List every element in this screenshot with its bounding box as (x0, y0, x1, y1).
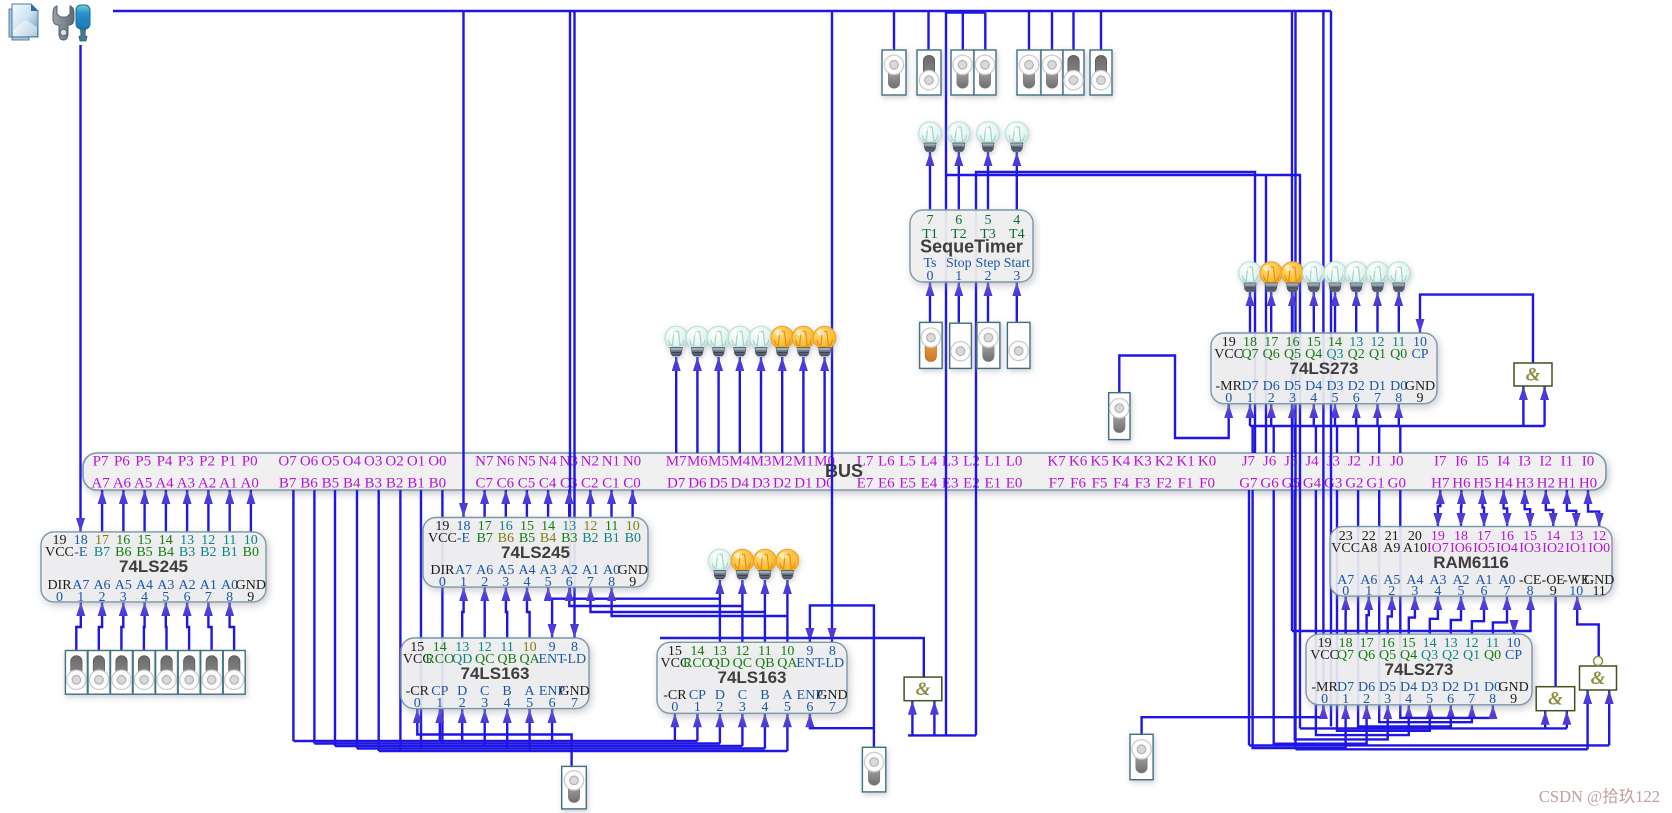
svg-text:N6: N6 (496, 454, 515, 470)
wire bus G6 to U6 D6 (1274, 490, 1371, 744)
wire trunk T2 drop (1265, 175, 1267, 453)
svg-text:BUS: BUS (825, 461, 863, 481)
svg-text:6: 6 (1447, 692, 1454, 707)
wire bus G1 to U6 D1 (1379, 490, 1476, 722)
svg-text:F1: F1 (1178, 476, 1194, 492)
wire U2 B0 to bus C0 (628, 490, 637, 517)
wire U3 QB to U2 (501, 587, 510, 638)
svg-text:J6: J6 (1263, 454, 1277, 470)
svg-text:I2: I2 (1540, 454, 1553, 470)
svg-text:L3: L3 (942, 454, 959, 470)
wire U4 QB to lamp (760, 580, 769, 642)
svg-text:O7: O7 (278, 454, 297, 470)
svg-text:E0: E0 (1006, 476, 1023, 492)
svg-text:VCC: VCC (1310, 648, 1339, 663)
svg-text:RCO: RCO (683, 656, 712, 671)
svg-text:6: 6 (806, 700, 813, 715)
wire U4 -CR riser (670, 713, 679, 741)
lamp U4 QC (731, 549, 754, 579)
svg-text:1: 1 (460, 575, 467, 590)
chip U7 RAM6116 (1330, 527, 1614, 599)
svg-text:2: 2 (1363, 692, 1370, 707)
svg-text:G2: G2 (1345, 476, 1363, 492)
svg-text:7: 7 (205, 590, 212, 605)
svg-text:M4: M4 (729, 454, 750, 470)
wire U5 D0 col (1394, 404, 1403, 426)
lamp U5 Q1 (1366, 262, 1389, 292)
lamp U5 Q6 (1260, 262, 1283, 292)
lamp U5 Q5 (1281, 262, 1304, 292)
svg-text:-E: -E (74, 545, 87, 560)
wire U2 B7 to bus C7 (480, 490, 489, 517)
wire U5 D3 col (1331, 404, 1340, 426)
wire switch S4 to U5 -MR (1119, 356, 1233, 439)
switch K0 (1090, 50, 1112, 95)
svg-text:D3: D3 (752, 476, 770, 492)
wire U2 B5 to bus C5 (522, 490, 531, 517)
svg-text:N2: N2 (581, 454, 599, 470)
svg-text:E2: E2 (963, 476, 980, 492)
svg-text:RCO: RCO (425, 652, 454, 667)
wire U4 B riser (760, 713, 769, 748)
svg-text:F3: F3 (1135, 476, 1151, 492)
wire U1 B1 to bus A1 (225, 490, 234, 532)
svg-text:I0: I0 (1582, 454, 1595, 470)
svg-text:B6: B6 (300, 476, 318, 492)
wire trunk x1249 (1248, 490, 1250, 745)
svg-text:5: 5 (784, 700, 791, 715)
svg-text:I7: I7 (1434, 454, 1447, 470)
lamp M1 (792, 326, 815, 356)
wire bus M5 to lamp (714, 357, 723, 453)
svg-text:C7: C7 (476, 476, 494, 492)
svg-text:F4: F4 (1113, 476, 1129, 492)
svg-text:C0: C0 (623, 476, 641, 492)
svg-text:P7: P7 (93, 454, 109, 470)
wire trunk x946 (945, 11, 947, 735)
wire bus M1 to lamp (799, 357, 808, 453)
svg-text:5: 5 (526, 696, 533, 711)
wire fan L4 (357, 747, 765, 749)
wire U4 D riser (715, 713, 724, 743)
wire U5 D6 col (1267, 404, 1276, 426)
svg-text:A4: A4 (155, 476, 174, 492)
wire U5 D2 col (1352, 404, 1361, 426)
wire bus H2 to RAM IO2 (1541, 490, 1557, 527)
svg-text:J1: J1 (1369, 454, 1382, 470)
wire timer button 0 (926, 282, 935, 322)
svg-text:3: 3 (502, 575, 509, 590)
lamp U5 Q2 (1345, 262, 1368, 292)
wire h728 to G2 (1300, 727, 1567, 729)
svg-text:1: 1 (694, 700, 701, 715)
svg-text:H4: H4 (1494, 476, 1513, 492)
wire U1 B3 to bus A3 (183, 490, 192, 532)
svg-text:P1: P1 (220, 454, 236, 470)
svg-text:N5: N5 (517, 454, 535, 470)
wire switch A0 to U1 (225, 602, 234, 650)
wire bus G3 to U6 D3 (1337, 490, 1434, 731)
wire U5 D1 col (1373, 404, 1382, 426)
svg-text:Q6: Q6 (1358, 648, 1375, 663)
wire h426 (1250, 425, 1545, 427)
wire -LD U4 feed (828, 11, 837, 642)
svg-text:D6: D6 (688, 476, 707, 492)
svg-text:0: 0 (1321, 692, 1328, 707)
wire U5 D5 col (1288, 404, 1297, 426)
svg-text:E3: E3 (942, 476, 959, 492)
wire bus G2 to U6 D2 (1358, 490, 1455, 727)
lamp U5 Q0 (1388, 262, 1411, 292)
wire U1 B7 to bus A7 (98, 490, 107, 532)
wire G4 input line (908, 734, 976, 736)
wire U6 Q1 to RAM A1 (1472, 596, 1489, 634)
svg-text:O0: O0 (428, 454, 446, 470)
svg-text:6: 6 (566, 575, 573, 590)
wire CP CE line (1292, 596, 1535, 631)
svg-text:G6: G6 (1260, 476, 1279, 492)
wire U6 Q7 to RAM A7 (1341, 596, 1350, 634)
switch A3 (156, 651, 178, 695)
wire sub trunk K54 (946, 11, 985, 13)
wire U6 Q6 to RAM A6 (1364, 596, 1373, 634)
svg-text:I1: I1 (1561, 454, 1574, 470)
svg-text:9: 9 (247, 590, 254, 605)
wire U1 B4 to bus A4 (161, 490, 170, 532)
wire G4 in2 (930, 701, 939, 736)
wire G2 in2 (1562, 711, 1571, 729)
wire trunk x1323 (1322, 11, 1324, 717)
svg-text:G4: G4 (1303, 476, 1322, 492)
svg-text:A10: A10 (1403, 541, 1427, 556)
wire h749 to G3 (1296, 748, 1588, 750)
wire switch K1 drop (1072, 11, 1074, 52)
svg-text:O2: O2 (385, 454, 403, 470)
svg-text:6: 6 (184, 590, 191, 605)
svg-text:A7: A7 (91, 476, 110, 492)
wire U4 A riser (783, 713, 792, 751)
svg-text:5: 5 (1458, 584, 1465, 599)
wire U6 Q4 to RAM A4 (1409, 596, 1420, 634)
svg-text:F6: F6 (1070, 476, 1086, 492)
svg-text:L2: L2 (963, 454, 980, 470)
button Ts (920, 322, 943, 368)
svg-text:A0: A0 (241, 476, 259, 492)
wire trunk x570 (569, 11, 571, 599)
svg-text:7: 7 (587, 575, 594, 590)
wire U3 C riser (480, 709, 489, 746)
chip U4 74LS163 (657, 642, 848, 715)
wire U3 B riser (503, 709, 512, 749)
wire U1 B0 to bus A0 (246, 490, 255, 532)
and gate G1 (1514, 363, 1552, 386)
wire bus B5 down (334, 490, 336, 746)
svg-text:L1: L1 (984, 454, 1001, 470)
switch A6 (88, 651, 110, 695)
svg-text:3: 3 (120, 590, 127, 605)
wire bus J7 col (1251, 426, 1253, 453)
wire switch A4 to U1 (140, 602, 149, 650)
svg-text:E1: E1 (984, 476, 1001, 492)
wire U4 C riser (738, 713, 747, 746)
wire U3 D riser (458, 709, 467, 744)
svg-text:F2: F2 (1156, 476, 1172, 492)
svg-text:0: 0 (1225, 391, 1232, 406)
lamp M4 (729, 326, 752, 356)
svg-text:9: 9 (629, 575, 636, 590)
svg-text:G0: G0 (1388, 476, 1406, 492)
svg-text:CP: CP (1411, 347, 1428, 362)
chip SequeTimer (910, 210, 1033, 284)
wire U6 Q2 to RAM A2 (1451, 596, 1466, 634)
svg-text:M7: M7 (666, 454, 687, 470)
switch A4 (133, 651, 155, 695)
svg-text:L6: L6 (878, 454, 895, 470)
svg-text:4: 4 (504, 696, 511, 711)
wire timer T1 to lamp (926, 152, 935, 210)
svg-text:74LS245: 74LS245 (119, 557, 188, 576)
svg-text:74LS163: 74LS163 (718, 668, 787, 687)
switch K4 (974, 50, 996, 95)
wire G1 in2 (1540, 386, 1549, 426)
lamp U5 Q3 (1324, 262, 1347, 292)
svg-text:J0: J0 (1390, 454, 1403, 470)
wire U1 B5 to bus A5 (140, 490, 149, 532)
svg-text:N1: N1 (602, 454, 620, 470)
lamp M7 (665, 326, 688, 356)
wire trunk x976 with T1 bus (976, 172, 1255, 735)
wire switch A5 to U1 (119, 602, 128, 650)
wire QB2 to U2 A1 (586, 587, 765, 612)
svg-text:4: 4 (761, 700, 768, 715)
wire bus G4 to U6 D4 (1316, 490, 1413, 735)
switch S3 (1130, 734, 1153, 779)
svg-text:6: 6 (549, 696, 556, 711)
svg-text:5: 5 (1332, 391, 1339, 406)
wire switch S1 to U3 -CR (413, 709, 572, 766)
svg-text:O3: O3 (364, 454, 382, 470)
lamp M3 (750, 326, 773, 356)
wire fan L2 (314, 742, 720, 744)
lamp U4 QB (754, 549, 777, 579)
switch K3 (1017, 50, 1041, 95)
svg-text:IO3: IO3 (1519, 541, 1541, 556)
svg-text:4: 4 (141, 590, 148, 605)
wire -E U1 feed (76, 45, 85, 532)
wire trunk x1295 (1294, 11, 1296, 749)
wire bus B4 down (356, 490, 358, 749)
svg-text:J2: J2 (1348, 454, 1361, 470)
wire G1 out to U5 CP (1416, 295, 1534, 363)
wire bus H0 to RAM IO0 (1584, 490, 1604, 527)
chip U6 74LS273 (1306, 634, 1532, 707)
svg-text:-LD: -LD (563, 652, 586, 667)
svg-text:H3: H3 (1516, 476, 1534, 492)
svg-text:B5: B5 (322, 476, 340, 492)
svg-text:VCC: VCC (1214, 347, 1243, 362)
wire bus J5 col (1294, 426, 1296, 453)
svg-text:K2: K2 (1155, 454, 1173, 470)
wire U1 B6 to bus A6 (119, 490, 128, 532)
svg-text:H1: H1 (1558, 476, 1576, 492)
svg-text:3: 3 (739, 700, 746, 715)
wire timer T4 to lamp (1012, 152, 1021, 210)
svg-text:M3: M3 (751, 454, 772, 470)
wire switch K2 drop (1051, 11, 1053, 52)
wire bus J4 col (1315, 426, 1317, 453)
wire U3 ENT (548, 599, 557, 638)
wire switch K0 drop (1100, 11, 1102, 52)
svg-text:D1: D1 (794, 476, 812, 492)
svg-text:0: 0 (56, 590, 63, 605)
wire U5 Q7 to lamp (1246, 292, 1255, 333)
wire QD2 to U2 A3 (544, 587, 720, 601)
svg-text:B2: B2 (582, 531, 598, 546)
switch K6 (917, 50, 941, 95)
svg-text:H6: H6 (1452, 476, 1471, 492)
svg-text:5: 5 (1426, 692, 1433, 707)
svg-text:Q0: Q0 (1484, 648, 1501, 663)
wire U4 CP riser (693, 713, 702, 741)
wire bus H7 to RAM IO7 (1433, 490, 1444, 527)
wire bus J3 col (1336, 426, 1338, 453)
wire U2 B3 to bus C3 (565, 490, 574, 517)
svg-text:D7: D7 (667, 476, 686, 492)
svg-text:L5: L5 (899, 454, 916, 470)
svg-text:P3: P3 (178, 454, 194, 470)
svg-text:C2: C2 (581, 476, 599, 492)
svg-text:8: 8 (1395, 391, 1402, 406)
svg-text:5: 5 (985, 213, 992, 228)
wire fan L3 (335, 745, 742, 747)
wire U6 Q5 to RAM A5 (1387, 596, 1396, 634)
svg-text:7: 7 (1374, 391, 1381, 406)
wire U2 B1 to bus C1 (607, 490, 616, 517)
svg-text:A1: A1 (219, 476, 237, 492)
BUS labels (91, 454, 1597, 492)
svg-text:P5: P5 (135, 454, 151, 470)
svg-text:IO2: IO2 (1542, 541, 1564, 556)
wire G4 in1 (908, 701, 917, 736)
wire fan L1 (293, 740, 697, 742)
wire U2 B4 to bus C4 (544, 490, 553, 517)
svg-text:K4: K4 (1112, 454, 1131, 470)
svg-text:2: 2 (985, 269, 992, 284)
button Start (1007, 322, 1030, 368)
switch K5 (951, 50, 974, 95)
wire U3 A riser (525, 709, 534, 751)
svg-text:K1: K1 (1176, 454, 1194, 470)
wire U4 QC to lamp (738, 580, 747, 642)
svg-text:11: 11 (1592, 584, 1605, 599)
svg-text:K6: K6 (1069, 454, 1088, 470)
svg-text:&: & (1548, 689, 1563, 710)
wire h745 to G3 (1249, 744, 1609, 746)
wire U6 Q0 to RAM A0 (1493, 596, 1512, 634)
wire G3 in2 (1605, 690, 1614, 745)
svg-text:74LS163: 74LS163 (461, 664, 530, 683)
wire bus B7 down (292, 490, 294, 741)
svg-text:C5: C5 (518, 476, 536, 492)
svg-text:7: 7 (1504, 584, 1511, 599)
wire U5 D4 col (1309, 404, 1318, 426)
wire U3 CP riser (435, 709, 444, 741)
wire switch K3 drop (1028, 11, 1030, 52)
svg-text:O1: O1 (407, 454, 425, 470)
wire U5 Q3 to lamp (1331, 292, 1340, 333)
switch S2 (862, 747, 885, 792)
wire top trunk (113, 10, 1331, 12)
svg-text:P4: P4 (157, 454, 173, 470)
svg-text:3: 3 (1411, 584, 1418, 599)
svg-text:B7: B7 (279, 476, 297, 492)
svg-text:2: 2 (716, 700, 723, 715)
svg-text:2: 2 (1268, 391, 1275, 406)
svg-text:P2: P2 (199, 454, 215, 470)
and gate G2 (1536, 687, 1575, 711)
svg-text:M5: M5 (708, 454, 729, 470)
svg-text:B3: B3 (364, 476, 382, 492)
switch K7 (882, 50, 906, 95)
svg-text:RAM6116: RAM6116 (1433, 553, 1509, 572)
wire QA2 to U2 A0 (607, 587, 787, 616)
wire G2 in1 (1541, 711, 1550, 729)
svg-text:M6: M6 (687, 454, 708, 470)
wire bus H1 to RAM IO1 (1562, 490, 1580, 527)
wire bus B2 down (399, 490, 401, 751)
wire bus B0 down (441, 490, 443, 744)
svg-text:A3: A3 (177, 476, 195, 492)
wire trunk T2 line (946, 175, 1300, 728)
svg-text:K0: K0 (1198, 454, 1216, 470)
wire bus M3 to lamp (757, 357, 766, 453)
svg-text:7: 7 (829, 700, 836, 715)
switch K1 (1063, 50, 1084, 95)
wire U5 Q5 to lamp (1288, 292, 1297, 333)
wire trunk x1331 (1330, 11, 1332, 727)
svg-text:1: 1 (955, 269, 962, 284)
wire switch A2 to U1 (183, 602, 192, 650)
svg-text:B2: B2 (200, 545, 216, 560)
wire bus J2 col (1357, 426, 1359, 453)
wire bus H6 to RAM IO6 (1457, 490, 1466, 527)
svg-text:I5: I5 (1476, 454, 1489, 470)
svg-text:N0: N0 (623, 454, 641, 470)
wire timer button 2 (984, 282, 993, 322)
svg-text:O5: O5 (321, 454, 339, 470)
svg-text:K3: K3 (1133, 454, 1151, 470)
svg-text:H0: H0 (1579, 476, 1597, 492)
svg-text:K7: K7 (1047, 454, 1066, 470)
wire bus H4 to RAM IO4 (1499, 490, 1512, 527)
wire bus M7 to lamp (672, 357, 681, 453)
lamp M6 (686, 326, 709, 356)
svg-text:F0: F0 (1199, 476, 1215, 492)
switch A1 (201, 651, 223, 695)
svg-text:4: 4 (1310, 391, 1317, 406)
wire timer button 3 (1012, 282, 1021, 322)
svg-text:B7: B7 (477, 531, 493, 546)
switch A2 (178, 651, 200, 695)
button Step (977, 322, 1000, 368)
svg-text:E6: E6 (878, 476, 895, 492)
wire U6 Q3 to RAM A3 (1430, 596, 1443, 634)
svg-text:8: 8 (226, 590, 233, 605)
chip U3 74LS163 (401, 638, 590, 711)
svg-text:L4: L4 (921, 454, 938, 470)
wire U3 ENP riser (548, 709, 557, 744)
svg-text:4: 4 (1434, 584, 1441, 599)
